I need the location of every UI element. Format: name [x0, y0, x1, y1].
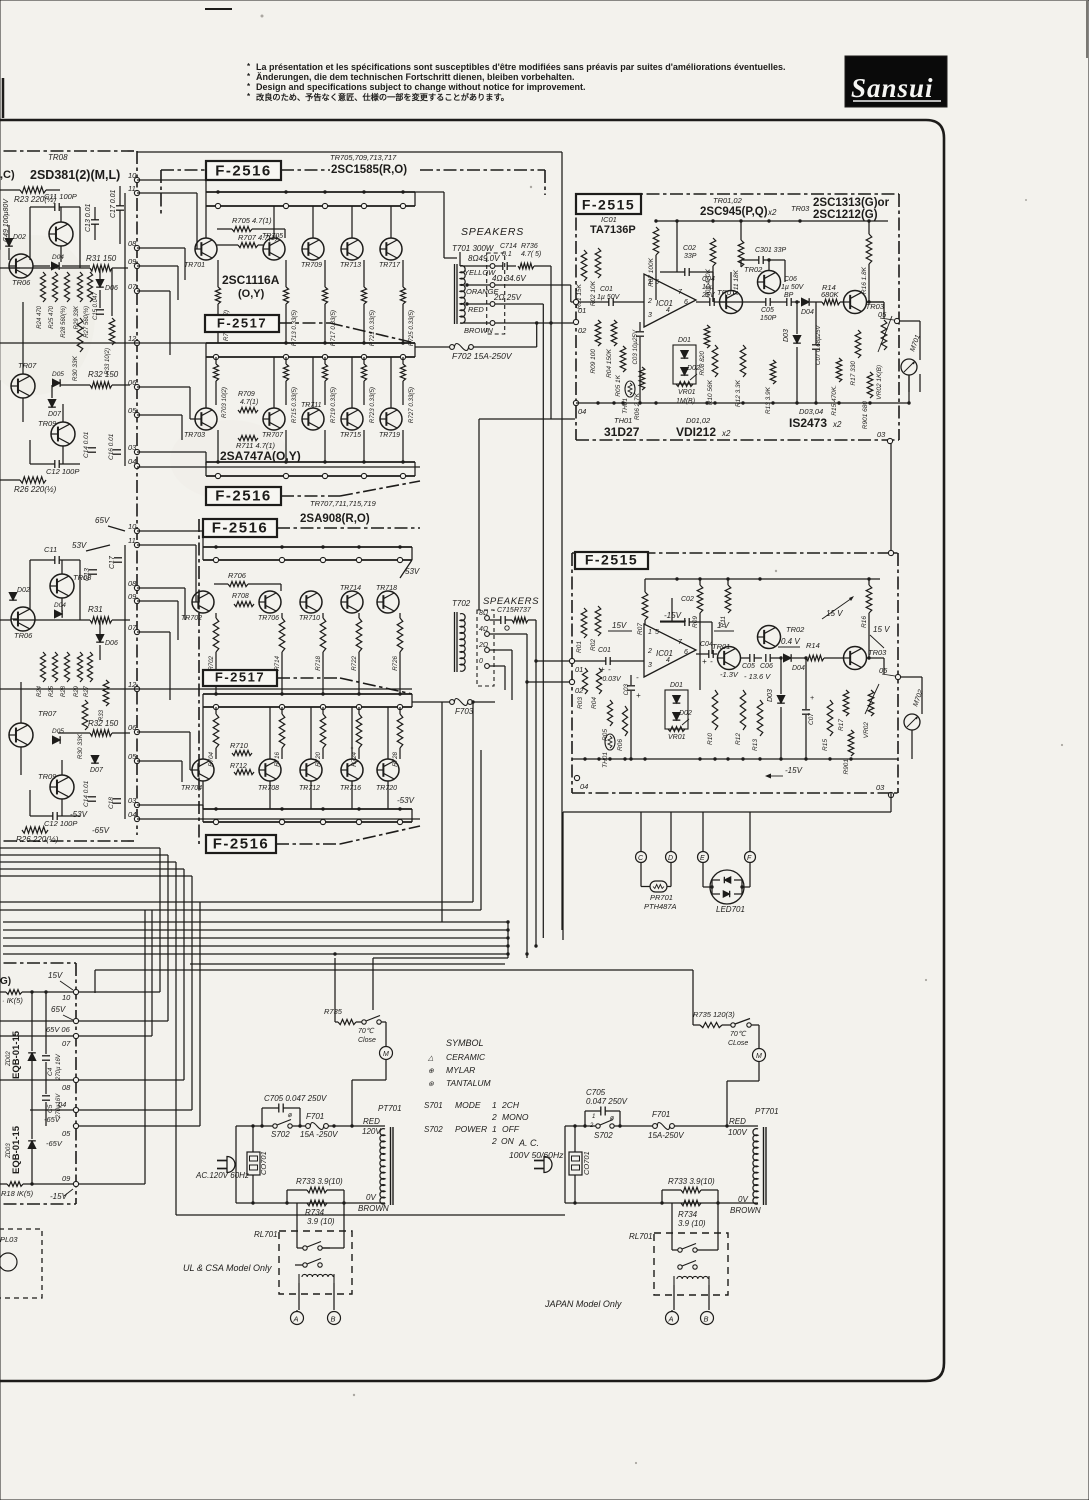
terminal 02 lower block — [569, 679, 574, 684]
diode pair D01 D02 with VR01 — [673, 345, 696, 384]
svg-text:D: D — [668, 855, 673, 862]
vertical wire right x=891 — [890, 444, 892, 553]
svg-text:2SC1585(R,O): 2SC1585(R,O) — [331, 164, 407, 176]
svg-text:RL701: RL701 — [254, 1230, 278, 1239]
svg-text:65V: 65V — [51, 1005, 66, 1014]
svg-text:R02: R02 — [590, 639, 597, 651]
svg-text:D01,02: D01,02 — [686, 416, 711, 425]
transistor TR06 lower — [11, 607, 35, 631]
svg-text:3.9 (10): 3.9 (10) — [678, 1219, 706, 1228]
svg-text:2SC1116A: 2SC1116A — [222, 273, 280, 287]
svg-text:E: E — [700, 855, 705, 862]
svg-text:C15 0.047: C15 0.047 — [93, 292, 99, 320]
svg-text:R31: R31 — [88, 605, 103, 614]
svg-text:15V: 15V — [48, 971, 63, 980]
resistor R04 lower — [596, 668, 601, 694]
svg-text:x2: x2 — [767, 208, 777, 217]
resistor R02 10K — [595, 248, 601, 278]
svg-text:11: 11 — [128, 536, 136, 545]
svg-text:TR710: TR710 — [299, 615, 320, 622]
svg-text:-65V: -65V — [92, 826, 110, 835]
svg-text:C05: C05 — [761, 307, 774, 314]
svg-text:09: 09 — [62, 1174, 71, 1183]
svg-text:R26 220(½): R26 220(½) — [14, 485, 57, 494]
svg-text:R10 56K: R10 56K — [707, 379, 714, 405]
collector feeds row2 — [205, 357, 207, 408]
capacitor C12 lower — [52, 812, 54, 820]
wires upper block internals — [676, 221, 678, 272]
diode ZD03 — [28, 1141, 36, 1149]
speaker tap box upper — [487, 253, 505, 334]
relay coil right — [673, 1276, 675, 1285]
terminal 04 eqb — [73, 1107, 78, 1112]
svg-text:0.1: 0.1 — [502, 251, 512, 258]
svg-text:04: 04 — [128, 457, 136, 466]
transistor TR07 lower — [9, 723, 33, 747]
svg-text:OFF: OFF — [502, 1124, 520, 1134]
transistor TR03 lower — [844, 647, 867, 670]
svg-text:RED: RED — [363, 1117, 380, 1126]
EQB block border — [0, 962, 76, 964]
svg-text:-0.03V: -0.03V — [600, 676, 622, 683]
switch S702 left — [273, 1124, 277, 1128]
svg-text:R734: R734 — [678, 1210, 698, 1219]
svg-text:M: M — [383, 1051, 389, 1058]
svg-text:15V: 15V — [612, 621, 627, 630]
svg-text:04: 04 — [128, 810, 136, 819]
emitter resistors lower row1 — [213, 618, 219, 652]
svg-text:2SC1212(G): 2SC1212(G) — [813, 209, 878, 221]
terminal 03 upper block — [887, 438, 892, 443]
F-2515 board border (lower) — [572, 552, 898, 554]
resistor R06 lower — [622, 706, 627, 736]
wire 8ohm feedback — [550, 266, 552, 419]
paper specks — [261, 15, 264, 18]
svg-text:6: 6 — [684, 299, 688, 306]
svg-text:-53V: -53V — [70, 810, 88, 819]
svg-text:2: 2 — [491, 1112, 497, 1122]
resistor R05 lower — [607, 700, 612, 726]
transistor TR713 — [341, 238, 363, 260]
svg-text:F-2517: F-2517 — [215, 670, 265, 685]
terminal 03 lower block — [888, 792, 893, 797]
svg-text:1µ 50V: 1µ 50V — [781, 284, 805, 291]
resistor R734 right — [681, 1200, 701, 1206]
lower channel rail 1 — [203, 546, 412, 548]
svg-text:R710: R710 — [230, 741, 249, 750]
svg-text:-65V: -65V — [46, 1139, 63, 1148]
svg-text:R708: R708 — [232, 593, 249, 600]
terminal 65V eqb — [73, 1018, 78, 1023]
bus vertical feeds right — [507, 922, 509, 958]
svg-text:F-2515: F-2515 — [582, 197, 635, 213]
svg-text:TR03: TR03 — [868, 648, 887, 657]
svg-text:x2: x2 — [721, 429, 731, 438]
svg-text:0V: 0V — [366, 1193, 376, 1202]
emitter resistors row2 — [213, 364, 218, 381]
svg-text:F-2516: F-2516 — [215, 163, 272, 180]
svg-text:C715: C715 — [497, 607, 514, 614]
bus horizontal lines — [3, 921, 508, 923]
bottom rail lower block — [572, 758, 898, 760]
svg-text:D01: D01 — [678, 337, 691, 344]
svg-text:T701 300W: T701 300W — [452, 244, 495, 253]
resistor R30 — [77, 318, 83, 352]
resistor R26 lower — [22, 827, 48, 833]
capacitor C14 — [88, 447, 96, 449]
wire t09 riser — [144, 910, 146, 1184]
transistor TR719 — [380, 408, 402, 430]
transistor TR708 — [259, 759, 281, 781]
resistor R03 470K — [710, 238, 716, 266]
svg-text:R718: R718 — [315, 655, 322, 670]
svg-text:D01: D01 — [670, 682, 683, 689]
F-2515 board border (upper) — [576, 193, 899, 195]
svg-text:R24: R24 — [37, 685, 43, 697]
svg-text:D04: D04 — [801, 309, 814, 316]
svg-text:TR711: TR711 — [301, 402, 322, 409]
svg-text:C18: C18 — [108, 797, 115, 809]
fuse F702 — [450, 345, 455, 350]
svg-text:C17: C17 — [109, 555, 116, 569]
svg-text:C17 0.01: C17 0.01 — [110, 189, 117, 218]
svg-text:x2: x2 — [832, 420, 842, 429]
svg-text:8Ω49.0V: 8Ω49.0V — [468, 254, 500, 263]
svg-text:03: 03 — [128, 443, 137, 452]
svg-text:TR03: TR03 — [791, 204, 810, 213]
svg-text:C04: C04 — [700, 641, 713, 648]
EQB inner verticals — [31, 992, 33, 1051]
svg-text:TANTALUM: TANTALUM — [446, 1078, 491, 1088]
thermistor TH01 — [625, 381, 635, 397]
svg-text:04: 04 — [580, 782, 588, 791]
svg-text:R735 120(3): R735 120(3) — [693, 1010, 735, 1019]
svg-text:TR707: TR707 — [262, 432, 284, 439]
relay RL701 right — [654, 1233, 728, 1295]
svg-text:07: 07 — [128, 623, 137, 632]
svg-text:BP: BP — [784, 292, 794, 299]
terminal 12 — [134, 340, 139, 345]
resistor R18 — [7, 1182, 23, 1187]
capacitor C5 — [42, 1095, 50, 1097]
terminal 05 upper block — [894, 318, 899, 323]
resistor R01 lower — [581, 608, 587, 638]
svg-text:01: 01 — [578, 306, 586, 315]
F-2515 label box (lower) — [575, 552, 648, 569]
svg-text:2: 2 — [647, 298, 652, 305]
svg-text:S702: S702 — [271, 1130, 290, 1139]
svg-text:RED: RED — [729, 1117, 746, 1126]
capacitor C14 lower — [88, 796, 96, 798]
svg-text:D02: D02 — [679, 710, 692, 717]
svg-text:D04: D04 — [54, 602, 66, 609]
speaker tap box lower — [477, 610, 494, 686]
svg-text:-15V: -15V — [664, 611, 682, 620]
svg-text:C5: C5 — [47, 1104, 54, 1113]
terminal C — [636, 852, 647, 863]
svg-text:BROWN: BROWN — [464, 326, 493, 335]
svg-text:D02: D02 — [17, 587, 30, 594]
svg-text:5: 5 — [655, 629, 659, 636]
transistor TR02 upper — [758, 271, 781, 294]
terminal 10 — [134, 177, 139, 182]
svg-text:2Ω: 2Ω — [478, 642, 489, 649]
svg-text:TR708: TR708 — [258, 785, 279, 792]
svg-text:04: 04 — [58, 1100, 66, 1109]
svg-text:TA7136P: TA7136P — [590, 224, 636, 236]
diode pair D01 D02 VR01 lower — [665, 690, 688, 729]
svg-text:C07: C07 — [808, 713, 815, 725]
svg-text:R16: R16 — [861, 616, 868, 628]
F-2516 board label box (lower 2) — [206, 835, 276, 853]
resistor R15 470K — [836, 358, 842, 382]
diode D07 — [48, 400, 56, 408]
page border frame — [0, 120, 944, 1381]
resistor R09 100 — [595, 320, 601, 346]
svg-text:53V: 53V — [405, 567, 420, 576]
svg-text:TR09: TR09 — [38, 772, 57, 781]
svg-text:R735: R735 — [324, 1007, 343, 1016]
svg-text:RL701: RL701 — [629, 1232, 653, 1241]
svg-text:△: △ — [427, 1055, 434, 1062]
svg-text:TR713: TR713 — [340, 262, 361, 269]
svg-text:IC01: IC01 — [601, 215, 617, 224]
wires from EQB terminals — [79, 991, 160, 993]
svg-text:R30 33K: R30 33K — [77, 733, 84, 759]
svg-text:R26 220(½): R26 220(½) — [16, 835, 59, 844]
long wire y=152 to speaker column — [137, 151, 562, 153]
svg-text:PR701: PR701 — [650, 893, 673, 902]
svg-text:4Ω 34.6V: 4Ω 34.6V — [492, 274, 526, 283]
terminal D — [666, 852, 677, 863]
svg-text:R03: R03 — [577, 697, 584, 709]
svg-text:R31 150: R31 150 — [86, 254, 117, 263]
terminal 06 — [134, 729, 139, 734]
svg-text:TR717: TR717 — [379, 262, 401, 269]
svg-text:RED: RED — [468, 305, 484, 314]
svg-text:R16 1.8K: R16 1.8K — [861, 266, 868, 294]
transistor TR712 — [300, 759, 322, 781]
resistor R33 — [109, 318, 115, 345]
svg-text:2: 2 — [647, 648, 652, 655]
inner wire column x=125 — [124, 193, 126, 466]
svg-text:S702: S702 — [424, 1125, 443, 1134]
left wiring upper channel — [29, 207, 31, 260]
svg-text:POWER: POWER — [455, 1124, 487, 1134]
svg-text:10: 10 — [128, 522, 137, 531]
svg-text:65V: 65V — [95, 516, 110, 525]
svg-text:R722: R722 — [351, 655, 358, 670]
svg-text:R30 33K: R30 33K — [72, 355, 79, 381]
capacitor CO701 right — [569, 1152, 582, 1175]
svg-text:TR01,02: TR01,02 — [713, 196, 743, 205]
diode D02 lower — [9, 593, 17, 601]
svg-text:15A-250V: 15A-250V — [648, 1131, 684, 1140]
resistor R04 150K — [611, 320, 617, 346]
terminal 08 eqb — [73, 1077, 78, 1082]
terminal 07 — [134, 629, 139, 634]
capacitor C15 — [96, 309, 104, 311]
F-2517 board label box (lower) — [203, 670, 277, 686]
transistor TR718 — [377, 591, 399, 613]
terminal 01 upper block — [573, 299, 578, 304]
wires upper channel to terminals — [137, 179, 206, 181]
svg-text:VDI212: VDI212 — [676, 425, 716, 439]
terminal 08 — [134, 585, 139, 590]
capacitor C12 — [54, 460, 56, 468]
svg-text:1 V: 1 V — [717, 621, 730, 630]
svg-text:F701: F701 — [306, 1112, 324, 1121]
upper channel rail 2 — [206, 342, 415, 344]
transistor TR709 — [302, 238, 324, 260]
svg-text:4Ω: 4Ω — [479, 626, 489, 633]
svg-text:G): G) — [0, 976, 11, 987]
transistor TR716 — [341, 759, 363, 781]
long return wire y=1215 — [176, 1214, 565, 1216]
terminal B right — [701, 1312, 714, 1325]
svg-text:D04: D04 — [792, 665, 805, 672]
AC plug left — [227, 1157, 235, 1173]
capacitor C17 — [116, 205, 124, 207]
svg-text:R14: R14 — [806, 641, 820, 650]
svg-text:R09 100: R09 100 — [590, 349, 597, 374]
transistor TR06 — [9, 254, 33, 278]
resistor R08 820 — [704, 325, 710, 348]
VR02 lower — [868, 690, 874, 716]
svg-text:S702: S702 — [594, 1131, 613, 1140]
svg-text:R17 330: R17 330 — [850, 361, 857, 386]
svg-text:B: B — [704, 1315, 709, 1324]
svg-text:70℃: 70℃ — [730, 1030, 747, 1038]
terminal 10 — [134, 528, 139, 533]
svg-text:07: 07 — [128, 282, 137, 291]
svg-text:0.4 V: 0.4 V — [781, 637, 800, 646]
svg-text:R737: R737 — [514, 607, 532, 614]
terminal 01 lower block — [569, 658, 574, 663]
lower channel rail 2 — [203, 693, 412, 695]
resistor group R24-R30 — [40, 272, 45, 302]
svg-text:C705: C705 — [586, 1088, 606, 1097]
svg-text:VR01: VR01 — [678, 389, 696, 396]
terminal 11 — [134, 542, 139, 547]
svg-text:R11 18K: R11 18K — [733, 269, 740, 294]
capacitor C13 — [91, 219, 99, 221]
bus lines mid — [0, 901, 473, 903]
riser terminal 05 — [199, 902, 201, 1126]
svg-text:R723 0.33(5): R723 0.33(5) — [369, 387, 376, 423]
capacitor C16 — [113, 449, 121, 451]
svg-text:MONO: MONO — [502, 1112, 529, 1122]
svg-text:D07: D07 — [48, 411, 62, 418]
svg-text:TR02: TR02 — [744, 265, 763, 274]
svg-text:Design and specifications subj: Design and specifications subject to cha… — [256, 82, 586, 92]
svg-text:2SA908(R,O): 2SA908(R,O) — [300, 513, 370, 525]
svg-text:- 13.6 V: - 13.6 V — [744, 672, 771, 681]
svg-text:R27: R27 — [84, 685, 90, 697]
svg-text:SYMBOL: SYMBOL — [446, 1038, 484, 1048]
svg-text:R15 470K.: R15 470K. — [831, 385, 838, 416]
diode D04 lower — [55, 610, 63, 618]
svg-text:Close: Close — [358, 1037, 376, 1044]
svg-text:D04: D04 — [52, 254, 64, 261]
svg-text:680K: 680K — [821, 290, 840, 299]
svg-text:CERAMIC: CERAMIC — [446, 1052, 486, 1062]
svg-text:C13 0.01: C13 0.01 — [85, 203, 92, 232]
photoresistor PR701 — [650, 881, 667, 892]
svg-text:C4: C4 — [47, 1067, 54, 1076]
svg-text:C14 0.01: C14 0.01 — [83, 780, 90, 807]
svg-text:R714: R714 — [274, 655, 281, 670]
svg-text:R12: R12 — [735, 733, 742, 745]
terminal 06 eqb — [73, 1033, 78, 1038]
op-amp IC01 upper — [644, 274, 696, 327]
emitter resistors lower row2 — [213, 714, 219, 748]
terminal 04 — [134, 463, 139, 468]
svg-text:BROWN: BROWN — [358, 1204, 389, 1213]
terminal 06 — [134, 384, 139, 389]
wire below lower block — [890, 793, 892, 812]
svg-text:D07: D07 — [90, 767, 104, 774]
svg-text:R05 1K: R05 1K — [615, 374, 622, 396]
svg-text:D02: D02 — [13, 234, 26, 241]
bottom rail upper block — [576, 402, 899, 404]
transistor TR711 — [302, 408, 324, 430]
svg-text:TR719: TR719 — [379, 432, 400, 439]
svg-text:F-2516: F-2516 — [215, 488, 272, 505]
diode D04 upper block — [802, 298, 810, 306]
svg-text:TR714: TR714 — [340, 585, 361, 592]
bottom power wire left — [236, 1202, 385, 1204]
terminal 07 — [134, 288, 139, 293]
svg-text:R733 3.9(10): R733 3.9(10) — [668, 1177, 715, 1186]
svg-text:-: - — [636, 673, 639, 682]
svg-text:F-2516: F-2516 — [213, 836, 270, 853]
resistor R12 lower — [740, 690, 746, 730]
svg-text:01: 01 — [575, 665, 583, 674]
svg-text:A. C.: A. C. — [518, 1138, 539, 1148]
PL03 box — [0, 1229, 42, 1298]
svg-text:33P: 33P — [684, 253, 697, 260]
diode D06 — [96, 280, 104, 288]
svg-text:8Ω: 8Ω — [479, 610, 489, 617]
transistor TR08 — [49, 222, 73, 246]
terminal A right — [666, 1312, 679, 1325]
svg-text:IS2473: IS2473 — [789, 416, 827, 430]
capacitor C07 — [812, 344, 820, 346]
svg-text:15 V: 15 V — [873, 625, 890, 634]
transistor TR08 lower — [50, 574, 74, 598]
resistor R11 18K — [738, 240, 744, 267]
svg-text:M: M — [756, 1053, 762, 1060]
svg-text:31D27: 31D27 — [604, 425, 640, 439]
transistor TR01 lower — [718, 647, 741, 670]
resistor R03 lower — [582, 668, 587, 694]
svg-text:Änderungen, die dem technische: Änderungen, die dem technischen Fortschr… — [256, 72, 575, 82]
terminal 09 — [134, 598, 139, 603]
capacitor C18 lower — [113, 798, 121, 800]
svg-text:R726: R726 — [392, 655, 399, 670]
terminal 11 — [134, 190, 139, 195]
svg-text:C02: C02 — [681, 596, 694, 603]
transistor TR715 — [341, 408, 363, 430]
svg-text:R28 560(½): R28 560(½) — [60, 306, 67, 338]
svg-text:C07 0.68µ25V: C07 0.68µ25V — [815, 324, 822, 365]
svg-text:R734: R734 — [305, 1208, 325, 1217]
power wire right — [565, 1125, 596, 1127]
svg-text:-: - — [710, 657, 713, 666]
svg-text:R713 0.33(5): R713 0.33(5) — [291, 310, 298, 346]
svg-text:2SC945(P,Q): 2SC945(P,Q) — [700, 206, 768, 218]
